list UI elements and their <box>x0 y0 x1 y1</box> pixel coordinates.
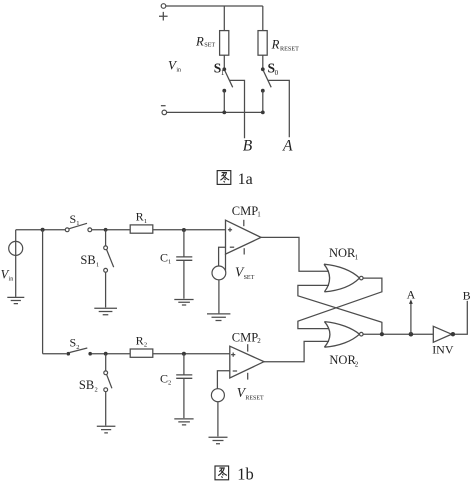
ground Vin <box>7 297 24 303</box>
ground C2 <box>174 419 193 425</box>
label CMP1 <box>232 204 261 219</box>
node S0 top contact <box>261 67 265 71</box>
source VSET <box>212 247 226 313</box>
svg-text:2: 2 <box>76 344 79 351</box>
svg-text:S: S <box>70 336 77 350</box>
junction dot node A <box>409 332 414 337</box>
svg-text:B: B <box>243 138 253 155</box>
wire bottom rail fig1a <box>167 111 263 113</box>
svg-text:SB: SB <box>80 253 95 267</box>
wire NOR2 output cross-couple to NOR1 input <box>298 285 382 334</box>
svg-text:RESET: RESET <box>280 45 299 52</box>
node S1 top contact <box>222 67 226 71</box>
resistor R1 <box>130 225 153 233</box>
label NOR1 <box>329 246 359 262</box>
wire RRESET branch <box>262 6 264 31</box>
ground VSET <box>207 314 230 321</box>
svg-text:INV: INV <box>432 342 454 356</box>
wire CMP2 output to NOR2 input <box>264 341 329 361</box>
svg-text:1: 1 <box>257 210 261 218</box>
svg-text:NOR: NOR <box>329 246 356 260</box>
wire S1 to bottom rail <box>223 91 225 113</box>
switch S1 arm <box>225 71 233 87</box>
wire R2 to CMP2 <box>153 353 230 355</box>
NOR gate NOR2 <box>324 322 363 348</box>
wire S2 to R2 <box>92 353 130 355</box>
caption fig 1a <box>217 171 253 189</box>
junction dot coupling <box>380 332 384 336</box>
wire RSET branch <box>223 6 225 31</box>
svg-text:1a: 1a <box>238 171 253 188</box>
label RRESET <box>271 37 300 52</box>
wire node A tap <box>268 80 289 137</box>
svg-text:R: R <box>136 333 144 347</box>
junction node SB1 branch <box>104 228 108 232</box>
svg-text:0: 0 <box>275 69 279 77</box>
terminal - (Vin negative) <box>161 106 167 115</box>
NOR gate NOR1 <box>324 264 363 292</box>
svg-text:CMP: CMP <box>232 204 258 218</box>
label VSET <box>235 265 255 281</box>
capacitor C1 <box>176 230 192 299</box>
resistor R2 <box>130 349 153 357</box>
wire node B tap <box>229 80 244 138</box>
label NOR2 <box>329 353 358 368</box>
svg-text:CMP: CMP <box>232 331 258 345</box>
junction node SB2 branch <box>104 352 108 356</box>
svg-text:1b: 1b <box>237 465 254 483</box>
source Vin fig1b <box>9 230 23 297</box>
wire S1 to R1 <box>92 229 131 231</box>
wire RSET to switch S1 <box>223 55 225 69</box>
op-amp CMP1 <box>226 220 262 255</box>
switch SB1 <box>104 230 114 308</box>
terminal + (Vin positive) <box>159 4 168 21</box>
junction node left rail <box>41 228 45 232</box>
switch S1 fig1b <box>65 223 91 231</box>
svg-text:S: S <box>70 212 77 226</box>
label S0 <box>268 61 279 77</box>
wire NOR1 output cross-couple to NOR2 input <box>298 278 382 329</box>
svg-text:2: 2 <box>168 380 171 387</box>
svg-text:2: 2 <box>355 360 359 368</box>
svg-text:RESET: RESET <box>245 395 264 401</box>
wire R1 to CMP1 <box>153 229 226 231</box>
label VRESET <box>237 385 264 401</box>
wire INV output to node B <box>455 301 467 334</box>
caption fig 1b <box>215 465 254 483</box>
junction dot S0 branch bottom <box>261 111 265 115</box>
svg-text:1: 1 <box>355 253 359 261</box>
label S2 <box>70 336 80 351</box>
switch SB2 <box>104 354 112 426</box>
label C2 <box>160 372 171 387</box>
svg-text:A: A <box>282 138 293 155</box>
junction node C1 <box>182 228 186 232</box>
label Vin fig1b <box>1 267 14 282</box>
label S1 <box>214 61 225 77</box>
label SB1 <box>80 253 99 268</box>
svg-text:2: 2 <box>257 337 261 345</box>
svg-text:R: R <box>136 210 144 224</box>
svg-text:C: C <box>160 251 168 265</box>
svg-text:R: R <box>195 34 204 48</box>
wire left rail vertical <box>42 230 44 354</box>
svg-text:SET: SET <box>204 41 215 48</box>
inverter INV <box>433 326 455 342</box>
label R2 <box>136 333 148 348</box>
wire NOR2 output line to INV <box>363 333 433 335</box>
capacitor C2 <box>176 354 192 418</box>
ground VRESET <box>209 437 228 444</box>
resistor RRESET <box>258 31 267 56</box>
svg-text:2: 2 <box>144 342 147 349</box>
svg-text:C: C <box>160 372 168 386</box>
svg-text:SET: SET <box>244 275 255 281</box>
label S1 fig1b <box>70 212 80 227</box>
svg-text:R: R <box>271 37 280 51</box>
switch S2 <box>67 348 92 356</box>
svg-text:A: A <box>407 287 416 301</box>
svg-text:NOR: NOR <box>329 353 356 367</box>
switch S0 arm <box>264 71 272 87</box>
svg-text:1: 1 <box>96 262 99 269</box>
junction dot S1 branch bottom <box>222 111 226 115</box>
label CMP2 <box>232 331 261 346</box>
svg-text:1: 1 <box>76 220 79 227</box>
wire RRESET to switch S0 <box>262 55 264 69</box>
label C1 <box>160 251 171 266</box>
junction node C2 <box>182 352 186 356</box>
label RSET <box>195 34 215 48</box>
ground SB1 <box>94 308 117 315</box>
svg-text:SB: SB <box>79 378 94 392</box>
svg-text:B: B <box>463 288 471 302</box>
label Vin fig1a <box>168 57 181 73</box>
node S0 bottom contact <box>261 89 265 93</box>
label SB2 <box>79 378 98 393</box>
wire CMP1 output to NOR1 input <box>261 237 329 271</box>
svg-text:1: 1 <box>221 69 225 77</box>
op-amp CMP2 <box>230 344 264 379</box>
label R1 <box>136 210 148 225</box>
wire S0 to bottom rail <box>262 91 264 113</box>
wire node A tap with arrow <box>409 299 413 334</box>
svg-text:1: 1 <box>168 259 171 266</box>
source VRESET <box>211 371 229 437</box>
svg-text:2: 2 <box>95 386 98 393</box>
node S1 bottom contact <box>222 89 226 93</box>
ground SB2 <box>97 426 116 433</box>
ground C1 <box>174 300 193 306</box>
wire bottom rail to S2 <box>43 353 67 355</box>
svg-text:in: in <box>9 276 14 282</box>
wire top rail fig1a <box>166 5 263 7</box>
svg-text:1: 1 <box>144 218 147 225</box>
svg-text:in: in <box>176 67 181 73</box>
wire top rail to S1 <box>16 229 66 231</box>
resistor RSET <box>220 31 229 56</box>
